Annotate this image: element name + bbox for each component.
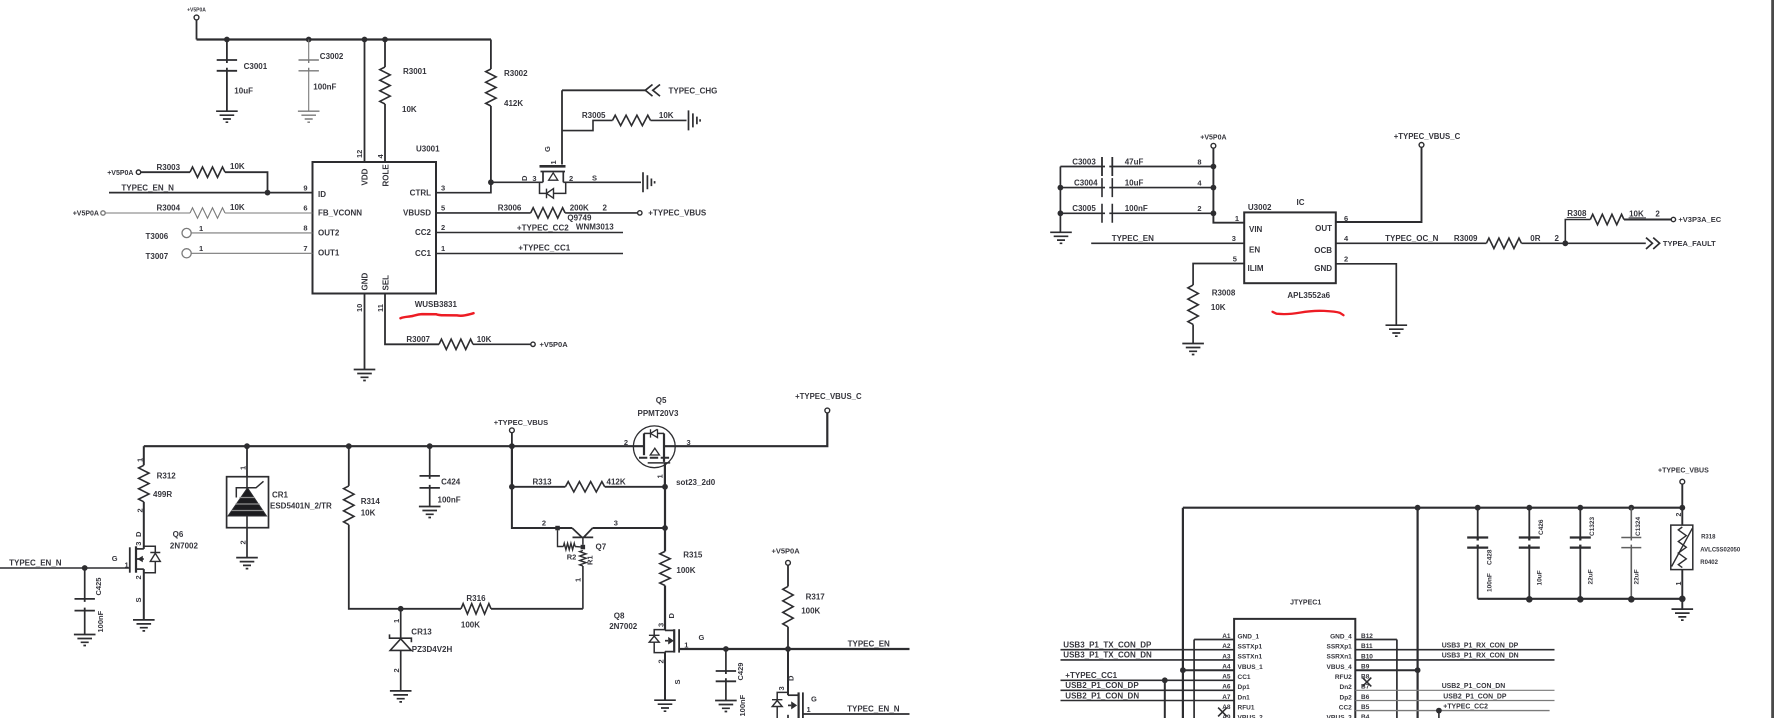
capacitor C3002 100nF — [299, 40, 344, 112]
svg-text:2: 2 — [441, 223, 445, 232]
svg-text:C3005: C3005 — [1072, 204, 1096, 213]
svg-text:G: G — [699, 633, 705, 642]
svg-text:CC2: CC2 — [1339, 704, 1352, 711]
svg-text:ID: ID — [318, 190, 326, 199]
svg-text:OCB: OCB — [1314, 246, 1332, 255]
wire VBUS left drop — [1182, 508, 1184, 718]
svg-text:TYPEC_EN: TYPEC_EN — [848, 639, 890, 648]
wire USB3_P1_RX_CON_DP (B11) — [1355, 649, 1554, 651]
svg-text:B4: B4 — [1361, 714, 1370, 718]
svg-text:CC1: CC1 — [1238, 674, 1251, 681]
svg-text:USB2_P1_CON_DN: USB2_P1_CON_DN — [1442, 683, 1506, 690]
svg-text:1: 1 — [807, 705, 811, 714]
svg-text:1: 1 — [136, 458, 145, 462]
svg-text:VBUS_3: VBUS_3 — [1327, 715, 1353, 718]
resistor R3002 412K — [486, 40, 528, 183]
svg-text:10K: 10K — [1211, 303, 1226, 312]
wire USB3_P1_TX_CON_DN (A3) — [1061, 659, 1235, 661]
no-connect RFU1 (A8) — [1218, 708, 1227, 717]
resistor R3008 10K on ILIM — [1188, 264, 1244, 344]
node junction C429 — [723, 646, 729, 652]
svg-text:Q9749: Q9749 — [567, 213, 592, 222]
node junctions on +V5P0A rail — [1211, 164, 1217, 170]
ground for CR1 — [236, 558, 258, 569]
svg-text:R3004: R3004 — [157, 203, 181, 212]
wire VBUS top rail (connector) — [1183, 507, 1682, 509]
wire CC2 drop — [1438, 711, 1440, 718]
svg-text:3: 3 — [614, 519, 618, 528]
svg-text:USB3_P1_TX_CON_DN: USB3_P1_TX_CON_DN — [1063, 651, 1152, 660]
svg-text:C425: C425 — [94, 578, 103, 596]
transistor Q6 2N7002 nmos — [112, 530, 199, 620]
svg-text:TYPEC_EN_N: TYPEC_EN_N — [121, 183, 174, 192]
capacitor C424 100nF — [420, 446, 461, 506]
ground for C3002 — [298, 111, 320, 122]
ground for C425 — [74, 635, 96, 646]
svg-text:D: D — [134, 531, 143, 537]
svg-text:8: 8 — [1197, 158, 1201, 167]
svg-text:+TYPEC_VBUS: +TYPEC_VBUS — [648, 209, 707, 218]
JTYPEC1 right pin numbers — [1361, 633, 1373, 718]
U3002 labels — [1248, 198, 1333, 273]
wire +TYPEC_CC1 (A5) — [1061, 679, 1235, 681]
svg-text:VBUS_2: VBUS_2 — [1238, 715, 1264, 718]
resistor R3004 10K — [105, 203, 312, 218]
svg-text:A9: A9 — [1222, 714, 1231, 718]
svg-text:R316: R316 — [466, 594, 486, 603]
svg-text:GND_4: GND_4 — [1330, 633, 1352, 640]
svg-text:100K: 100K — [676, 566, 695, 575]
svg-text:USB2_P1_CON_DP: USB2_P1_CON_DP — [1443, 693, 1507, 700]
node junction +TYPEC_VBUS/R313 — [509, 443, 515, 449]
transistor Q7 (digital pnp with R1 R2) — [512, 487, 665, 609]
svg-text:100nF: 100nF — [738, 694, 747, 716]
svg-text:U3001: U3001 — [416, 145, 440, 154]
node junction C3001 — [224, 37, 230, 43]
svg-text:499R: 499R — [153, 490, 172, 499]
ground for U3001 GND pin — [364, 294, 366, 370]
node junction VBUS_4 — [1415, 667, 1421, 673]
ground for capacitor bank — [1050, 232, 1072, 243]
svg-text:3: 3 — [134, 542, 143, 546]
resistor R3005 10K to ground — [562, 111, 687, 131]
svg-text:OUT: OUT — [1315, 224, 1332, 233]
svg-text:GND: GND — [360, 273, 369, 291]
wire GND_1 bus (A1) — [1194, 639, 1234, 641]
ground for Q6 source — [133, 620, 155, 631]
svg-text:WNM3013: WNM3013 — [576, 223, 614, 232]
JTYPEC1 left pin numbers — [1222, 633, 1231, 718]
svg-text:+V5P0A: +V5P0A — [107, 170, 133, 177]
svg-text:CR1: CR1 — [272, 490, 289, 499]
svg-text:R3008: R3008 — [1212, 288, 1236, 297]
svg-text:+V5P0A: +V5P0A — [772, 547, 801, 556]
svg-text:S: S — [673, 679, 682, 684]
svg-text:T3006: T3006 — [146, 232, 169, 241]
svg-text:FB_VCONN: FB_VCONN — [318, 209, 362, 218]
red marker squiggle under APL3552a6 — [1273, 311, 1344, 315]
svg-text:SEL: SEL — [381, 275, 390, 291]
svg-text:10K: 10K — [1629, 210, 1644, 219]
node junction CTRL/R3002 — [488, 179, 494, 185]
red marker squiggle under WUSB3831 — [401, 313, 474, 318]
wire USB2_P1_CON_DN (B7) — [1355, 689, 1554, 691]
terminal +TYPEC_VBUS (connector) — [1658, 468, 1709, 508]
svg-text:2: 2 — [603, 203, 608, 212]
diode CR1 ESD5401N_2/TR (TVS) — [227, 446, 332, 557]
svg-text:SSTXp1: SSTXp1 — [1238, 644, 1263, 651]
svg-text:VDD: VDD — [360, 168, 369, 185]
node junction R308/TYPEA_FAULT — [1562, 240, 1568, 246]
svg-text:EN: EN — [1249, 246, 1260, 255]
svg-text:D: D — [787, 675, 796, 681]
svg-text:100nF: 100nF — [1487, 573, 1494, 592]
node junction C424 — [427, 443, 433, 449]
svg-text:R308: R308 — [1567, 209, 1587, 218]
svg-text:sot23_2d0: sot23_2d0 — [676, 478, 716, 487]
svg-text:R2: R2 — [567, 553, 577, 562]
svg-text:100nF: 100nF — [1125, 204, 1148, 213]
svg-text:Dp1: Dp1 — [1238, 684, 1251, 691]
resistor R318 AVLC5S02050 — [1671, 508, 1741, 599]
svg-text:VBUS_1: VBUS_1 — [1238, 664, 1264, 671]
svg-text:R0402: R0402 — [1700, 560, 1718, 566]
node junction R313 left — [509, 484, 515, 490]
svg-text:A2: A2 — [1222, 643, 1231, 650]
svg-text:10uF: 10uF — [234, 86, 253, 95]
svg-text:5: 5 — [441, 204, 445, 213]
wire GND_4 bus (B12) — [1355, 639, 1397, 641]
JTYPEC1 right pin names — [1327, 633, 1353, 718]
capacitor C3001 10uF — [217, 40, 268, 112]
wire capacitor bottom bus — [1478, 598, 1683, 600]
svg-text:C424: C424 — [441, 478, 461, 487]
capacitor C3003 47uF — [1060, 157, 1213, 176]
svg-text:TYPEA_FAULT: TYPEA_FAULT — [1663, 239, 1716, 248]
svg-text:C3003: C3003 — [1072, 157, 1096, 166]
svg-text:G: G — [112, 554, 118, 563]
node junction CR13 — [398, 606, 404, 612]
transistor Q5 PPMT20V3 pmos — [624, 396, 716, 487]
svg-text:ROLE: ROLE — [381, 164, 390, 187]
svg-text:R3003: R3003 — [157, 163, 181, 172]
svg-text:+V3P3A_EC: +V3P3A_EC — [1678, 215, 1721, 224]
svg-text:2: 2 — [134, 575, 143, 579]
svg-text:R3009: R3009 — [1454, 234, 1478, 243]
resistor R3001 10K — [380, 40, 427, 163]
power symbol +V5P0A (top) — [187, 8, 206, 40]
svg-text:R3006: R3006 — [498, 204, 522, 213]
svg-text:S: S — [592, 174, 597, 183]
page border (right) — [1771, 0, 1774, 718]
terminal +V5P0A at R3007 — [531, 342, 535, 346]
wire OUT to +TYPEC_VBUS_C — [1336, 132, 1461, 222]
node junction VBUS_1 — [1180, 667, 1186, 673]
op-amp U3001 WUSB3831 body — [313, 162, 437, 294]
wire VBUS_4 stub (B9) — [1355, 669, 1417, 671]
svg-text:S: S — [134, 597, 143, 602]
U3002 pin numbers — [1232, 214, 1349, 264]
svg-text:100K: 100K — [461, 620, 480, 629]
svg-text:CR13: CR13 — [411, 627, 432, 636]
svg-text:0R: 0R — [1530, 234, 1540, 243]
svg-text:R3005: R3005 — [582, 111, 606, 120]
svg-text:JTYPEC1: JTYPEC1 — [1290, 600, 1321, 607]
svg-text:2N7002: 2N7002 — [170, 542, 199, 551]
svg-text:SSRXn1: SSRXn1 — [1327, 654, 1353, 661]
no-connect RFU2 (B8) — [1363, 678, 1372, 687]
transistor Q9 nmos (bottom, partial) — [772, 649, 817, 718]
wire +TYPEC_CC2 (B5) — [1355, 710, 1549, 712]
svg-text:+TYPEC_VBUS_C: +TYPEC_VBUS_C — [1394, 132, 1461, 141]
op-amp U3002 APL3552a6 body — [1244, 212, 1336, 283]
svg-text:A1: A1 — [1222, 633, 1231, 640]
svg-text:B6: B6 — [1361, 694, 1370, 701]
svg-text:R317: R317 — [806, 593, 826, 602]
svg-text:R314: R314 — [361, 497, 381, 506]
capacitor C3004 10uF — [1060, 178, 1213, 197]
connector JTYPEC1 body — [1234, 619, 1355, 718]
wire TYPEC_EN_N (bottom) — [803, 704, 910, 714]
svg-text:R312: R312 — [157, 472, 177, 481]
svg-text:A4: A4 — [1222, 664, 1231, 671]
ground for capacitor bus — [1681, 599, 1683, 609]
node junction R314 — [346, 443, 352, 449]
svg-text:2N7002: 2N7002 — [609, 622, 638, 631]
terminal +V3P3A_EC — [1671, 217, 1675, 221]
wire +TYPEC_CC2 (pin 2) — [436, 232, 623, 234]
svg-text:+V5P0A: +V5P0A — [187, 8, 206, 14]
svg-text:11: 11 — [376, 304, 385, 312]
svg-text:PZ3D4V2H: PZ3D4V2H — [412, 645, 453, 654]
node junction Q5 gate — [662, 484, 668, 490]
node junction R3001 — [382, 37, 388, 43]
svg-text:10: 10 — [355, 304, 364, 312]
svg-text:CC2: CC2 — [415, 228, 432, 237]
svg-text:10uF: 10uF — [1537, 570, 1544, 585]
wire CTRL to transistor drain — [436, 182, 491, 192]
svg-text:G: G — [543, 146, 552, 152]
svg-text:1: 1 — [392, 619, 401, 623]
svg-text:100nF: 100nF — [96, 610, 105, 632]
svg-text:T3007: T3007 — [146, 252, 169, 261]
svg-text:1: 1 — [1676, 582, 1683, 586]
U3001 pin numbers — [303, 150, 445, 312]
wire Q5 gate chain / node junction Q7 — [664, 487, 666, 528]
svg-text:C426: C426 — [1538, 519, 1545, 535]
capacitor C1324 22uF — [1621, 508, 1642, 599]
svg-text:Dn1: Dn1 — [1238, 694, 1251, 701]
node junction VDD — [362, 37, 368, 43]
svg-text:WUSB3831: WUSB3831 — [415, 300, 458, 309]
svg-text:3: 3 — [687, 438, 691, 447]
off-page connector TYPEA_FAULT — [1646, 238, 1716, 249]
svg-text:TYPEC_CHG: TYPEC_CHG — [669, 87, 718, 96]
svg-text:+V5P0A: +V5P0A — [73, 211, 99, 218]
capacitor C426 10uF — [1519, 508, 1545, 599]
svg-text:1: 1 — [441, 244, 445, 253]
svg-text:C3001: C3001 — [244, 62, 268, 71]
svg-text:CC1: CC1 — [415, 249, 432, 258]
svg-text:100K: 100K — [801, 607, 820, 616]
svg-text:+TYPEC_VBUS: +TYPEC_VBUS — [1658, 468, 1709, 475]
svg-text:ILIM: ILIM — [1248, 264, 1264, 273]
svg-text:5: 5 — [1233, 255, 1237, 264]
svg-text:R3007: R3007 — [406, 335, 430, 344]
svg-text:C428: C428 — [1487, 549, 1494, 565]
wire +TYPEC_VBUS rail (bottom left) — [144, 445, 644, 447]
svg-text:VBUS_4: VBUS_4 — [1327, 664, 1353, 671]
svg-text:10K: 10K — [230, 203, 245, 212]
node junction CC1 — [1162, 677, 1168, 683]
svg-text:TYPEC_EN_N: TYPEC_EN_N — [9, 559, 62, 568]
svg-text:TYPEC_OC_N: TYPEC_OC_N — [1385, 234, 1439, 243]
ground for C429 — [715, 701, 737, 712]
wire +TYPEC_CC1 (pin 1) — [436, 253, 623, 255]
wire TYPEC_EN_N to Q6 gate — [0, 559, 130, 568]
svg-text:+TYPEC_VBUS_C: +TYPEC_VBUS_C — [795, 392, 862, 401]
svg-text:G: G — [811, 695, 817, 704]
node junction R318 top — [1679, 505, 1685, 511]
svg-text:USB2_P1_CON_DN: USB2_P1_CON_DN — [1065, 691, 1139, 700]
svg-text:22uF: 22uF — [1588, 569, 1595, 584]
node junction R317 — [785, 646, 791, 652]
wire VBUS_1 stub (A4) — [1183, 669, 1234, 671]
svg-text:USB3_P1_RX_CON_DP: USB3_P1_RX_CON_DP — [1442, 643, 1519, 650]
resistor R312 499R — [136, 446, 177, 549]
svg-text:10K: 10K — [230, 162, 245, 171]
svg-text:A7: A7 — [1222, 694, 1231, 701]
resistor R313 412K — [512, 446, 665, 492]
resistor R315 100K — [660, 528, 703, 630]
svg-text:APL3552a6: APL3552a6 — [1287, 291, 1330, 300]
svg-text:GND: GND — [1314, 264, 1332, 273]
svg-text:CTRL: CTRL — [410, 188, 431, 197]
resistor R3007 10K to +V5P0A (SEL pin) — [385, 294, 531, 350]
svg-text:Q8: Q8 — [614, 611, 625, 620]
diode CR13 PZ3D4V2H (zener) — [390, 609, 453, 691]
wire capacitor left rail — [1059, 167, 1061, 224]
svg-text:R1: R1 — [586, 555, 595, 565]
transistor Q9749 WNM3013 nmos — [520, 90, 614, 231]
svg-text:PPMT20V3: PPMT20V3 — [638, 409, 679, 418]
svg-text:+TYPEC_CC2: +TYPEC_CC2 — [517, 223, 569, 232]
svg-text:GND_1: GND_1 — [1238, 633, 1260, 640]
svg-text:2: 2 — [1655, 210, 1660, 219]
svg-text:2: 2 — [1555, 234, 1560, 243]
wire VBUS right drop (B9) — [1416, 508, 1418, 718]
svg-text:U3002: U3002 — [1248, 203, 1272, 212]
resistor R3006 200K to +TYPEC_VBUS — [436, 203, 638, 218]
svg-text:3: 3 — [532, 174, 536, 183]
svg-text:7: 7 — [303, 244, 307, 253]
wire +V5P0A rail — [197, 38, 492, 40]
svg-text:R3002: R3002 — [504, 69, 528, 78]
ground (side) for R3005 — [689, 110, 701, 130]
svg-text:2: 2 — [136, 508, 145, 512]
svg-text:D: D — [520, 175, 529, 181]
transistor Q8 2N7002 nmos — [609, 611, 704, 700]
capacitor C428 100nF — [1467, 508, 1493, 599]
svg-text:+TYPEC_CC2: +TYPEC_CC2 — [1443, 703, 1488, 710]
svg-text:100nF: 100nF — [313, 83, 336, 92]
svg-text:2: 2 — [624, 438, 628, 447]
svg-text:3: 3 — [441, 183, 445, 192]
svg-text:A6: A6 — [1222, 684, 1231, 691]
svg-text:2: 2 — [657, 659, 666, 663]
svg-text:47uF: 47uF — [1125, 157, 1144, 166]
svg-text:1: 1 — [574, 578, 583, 582]
svg-text:Dp2: Dp2 — [1340, 694, 1353, 701]
power terminal +V5P0A for R3003 — [136, 170, 140, 174]
terminal +TYPEC_VBUS (rail) — [494, 418, 548, 446]
resistor R316 100K — [401, 594, 583, 629]
svg-text:R3001: R3001 — [403, 67, 427, 76]
wire TYPEC_CHG — [562, 85, 717, 97]
U3001 pin labels — [318, 164, 432, 291]
svg-text:10uF: 10uF — [1125, 178, 1144, 187]
svg-text:2: 2 — [392, 668, 401, 672]
svg-text:USB3_P1_RX_CON_DN: USB3_P1_RX_CON_DN — [1442, 653, 1519, 660]
svg-text:8: 8 — [303, 224, 307, 233]
svg-text:Q5: Q5 — [656, 396, 667, 405]
wire TYPEC_EN_N to ID pin 9 — [109, 183, 313, 192]
svg-text:C429: C429 — [736, 663, 745, 681]
svg-text:A5: A5 — [1222, 674, 1231, 681]
svg-text:R318: R318 — [1701, 535, 1716, 541]
svg-text:A3: A3 — [1222, 653, 1231, 660]
svg-text:2: 2 — [1344, 255, 1348, 264]
wire CC1 drop — [1164, 680, 1166, 718]
svg-text:2: 2 — [542, 519, 546, 528]
svg-text:Q6: Q6 — [173, 530, 184, 539]
svg-text:2: 2 — [1197, 204, 1201, 213]
svg-text:412K: 412K — [607, 477, 626, 486]
terminal +TYPEC_VBUS — [638, 211, 642, 215]
svg-text:OUT1: OUT1 — [318, 249, 340, 258]
node junction CC2 — [1436, 708, 1442, 714]
svg-text:B7: B7 — [1361, 684, 1370, 691]
ground (side) for Q9749 source — [563, 181, 641, 183]
svg-text:+TYPEC_CC1: +TYPEC_CC1 — [518, 243, 570, 252]
wire TYPEC_OC_N / resistor R3009 0R — [1336, 234, 1646, 249]
wire USB3_P1_RX_CON_DN (B10) — [1355, 659, 1554, 661]
capacitor C429 100nF — [716, 649, 747, 717]
svg-text:3: 3 — [657, 623, 666, 627]
wire TYPEC_EN to EN pin 3 — [1091, 234, 1244, 244]
svg-text:412K: 412K — [504, 99, 523, 108]
wire USB2_P1_CON_DP (B6) — [1355, 700, 1554, 702]
svg-text:C3004: C3004 — [1074, 178, 1098, 187]
svg-text:C1324: C1324 — [1635, 516, 1642, 536]
node junction C428 — [1475, 505, 1481, 511]
svg-text:C1323: C1323 — [1589, 516, 1596, 536]
svg-text:2: 2 — [238, 540, 247, 544]
capacitor C1323 22uF — [1570, 508, 1596, 599]
svg-text:100nF: 100nF — [438, 496, 461, 505]
node junction CR1 — [244, 443, 250, 449]
ground for Q8 source — [654, 700, 676, 711]
JTYPEC1 left pin names — [1238, 633, 1264, 718]
svg-text:10K: 10K — [361, 509, 376, 518]
svg-text:C3002: C3002 — [320, 52, 344, 61]
svg-text:USB3_P1_TX_CON_DP: USB3_P1_TX_CON_DP — [1063, 641, 1152, 650]
svg-text:R313: R313 — [533, 477, 553, 486]
wire TYPEC_EN — [679, 639, 909, 649]
wire USB3_P1_TX_CON_DP (A2) — [1061, 649, 1235, 651]
svg-text:IC: IC — [1297, 198, 1305, 207]
svg-text:OUT2: OUT2 — [318, 229, 340, 238]
